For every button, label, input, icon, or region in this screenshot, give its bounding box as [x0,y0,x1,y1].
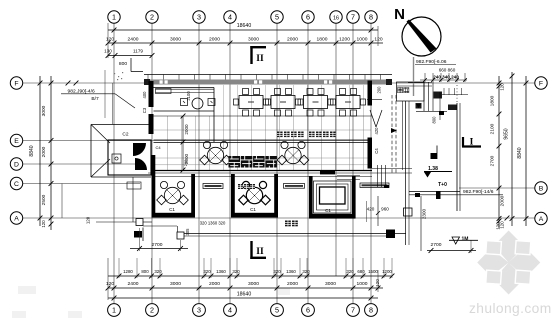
svg-text:A: A [539,216,544,223]
svg-text:960: 960 [381,207,389,212]
svg-text:1000: 1000 [357,37,368,43]
svg-text:2700: 2700 [490,155,496,166]
svg-text:420: 420 [367,207,375,212]
svg-text:320: 320 [232,269,240,274]
top dimension rows 18640 / 120 2400 3000 ... [104,23,383,72]
svg-text:320 1360 320: 320 1360 320 [200,221,226,226]
svg-text:1000: 1000 [357,281,368,287]
svg-text:6: 6 [306,306,310,315]
svg-text:8840: 8840 [517,147,523,158]
svg-text:1M: 1M [462,237,469,243]
svg-text:F: F [539,81,543,88]
svg-text:zhulong.com: zhulong.com [469,301,552,316]
svg-text:1800: 1800 [490,95,496,106]
bottom-left terrace columns and 2700 dim [86,216,191,251]
svg-text:320: 320 [203,269,211,274]
svg-text:2000: 2000 [287,37,298,43]
svg-text:420: 420 [374,127,379,135]
svg-text:800: 800 [432,116,437,124]
svg-text:F: F [14,81,18,88]
svg-text:B: B [539,186,544,193]
svg-text:4: 4 [228,13,232,22]
right wing step dimensions [415,59,467,82]
svg-text:C3: C3 [142,107,147,113]
svg-text:120: 120 [106,281,114,287]
svg-text:D: D [14,162,19,169]
svg-text:1200: 1200 [382,269,392,274]
svg-text:16: 16 [333,16,339,22]
svg-text:C2: C2 [122,132,128,138]
svg-text:E: E [14,138,19,145]
vertical axis grid lines 1-8 [114,23,371,303]
svg-text:6: 6 [306,13,310,22]
A axis ticks right [496,216,510,230]
svg-text:800: 800 [141,269,149,274]
bench 2 [284,184,305,189]
svg-text:800: 800 [119,61,127,67]
svg-text:9650: 9650 [504,128,510,139]
svg-text:1: 1 [112,306,116,315]
svg-text:8: 8 [369,306,373,315]
svg-text:120: 120 [86,216,91,224]
right boundary wall and 982.F90-14/6 [409,103,503,251]
svg-text:320: 320 [302,269,310,274]
svg-text:C1: C1 [325,208,331,213]
svg-text:C: C [14,181,19,188]
svg-text:1: 1 [112,13,116,22]
svg-text:200: 200 [183,159,188,166]
bay 1 with round table C1 [152,155,196,218]
svg-text:320: 320 [273,269,281,274]
svg-text:2000: 2000 [500,195,506,206]
svg-text:2300: 2300 [422,208,427,219]
svg-text:130: 130 [104,49,112,54]
watermark zhulong.com logo [12,231,552,319]
svg-text:3000: 3000 [248,37,259,43]
bottom dimension rows [106,258,395,300]
section marker I [462,137,481,148]
svg-text:5: 5 [275,13,279,22]
svg-text:2000: 2000 [287,281,298,287]
svg-text:2700: 2700 [152,242,163,248]
420 960 dims [367,196,390,226]
svg-text:3: 3 [197,13,201,22]
svg-text:2500: 2500 [41,194,47,205]
svg-text:C4: C4 [374,148,379,154]
right wing flower bed and steps [392,57,468,245]
terrace bottom edge and 水池 label [184,221,406,239]
hall floor tile grid [154,85,371,171]
right axis bubbles F B A and vertical dims [490,72,548,229]
horizontal axis lines F E D C B A [23,83,535,218]
svg-text:7: 7 [351,13,355,22]
bench 1 [203,184,223,189]
svg-text:5: 5 [275,306,279,315]
svg-text:660 860: 660 860 [439,68,456,73]
svg-text:1360: 1360 [286,269,296,274]
svg-text:I: I [470,138,474,148]
svg-text:1500: 1500 [368,269,378,274]
svg-text:C1: C1 [169,207,175,212]
svg-text:2000: 2000 [209,281,220,287]
svg-text:2700: 2700 [431,242,442,248]
axis bubbles bottom 1-8 [108,304,378,317]
svg-text:N: N [394,6,405,23]
north arrow [394,6,441,56]
svg-text:120: 120 [375,279,380,287]
svg-text:18640: 18640 [237,23,252,29]
svg-text:200: 200 [376,86,381,94]
svg-text:2100: 2100 [186,91,191,101]
svg-text:3000: 3000 [170,37,181,43]
right 2700 dimension and 1M flag [427,237,478,254]
four dining tables with chairs [234,89,366,117]
top exterior wall with windows [144,75,392,86]
svg-text:1360: 1360 [216,269,226,274]
svg-text:2100: 2100 [490,123,496,134]
svg-text:305: 305 [185,228,190,236]
svg-text:4: 4 [228,306,232,315]
svg-text:120: 120 [374,37,382,43]
svg-text:240 340 240: 240 340 240 [433,75,459,80]
svg-text:II: II [256,247,264,257]
svg-text:3000: 3000 [325,281,336,287]
elevation flags [424,146,452,189]
svg-text:320: 320 [154,269,162,274]
svg-text:II: II [256,54,264,64]
svg-text:2400: 2400 [128,37,139,43]
left axis bubbles F E D C A and vertical dims [10,76,53,230]
svg-text:1200: 1200 [339,37,350,43]
svg-text:2: 2 [150,13,154,22]
bay 2 with round table C1 [231,174,278,218]
svg-text:2400: 2400 [128,281,139,287]
svg-text:8: 8 [369,13,373,22]
svg-text:3000: 3000 [170,281,181,287]
section marker II top [250,46,266,64]
svg-text:A: A [14,216,19,223]
axis bubbles top 1-8 [108,11,377,23]
svg-text:1179: 1179 [133,49,143,54]
svg-text:18640: 18640 [237,292,252,298]
section marker II bottom [250,241,266,259]
svg-text:C4: C4 [155,145,161,150]
svg-text:3: 3 [197,306,201,315]
svg-text:7: 7 [351,306,355,315]
hall bottom edge [148,169,412,174]
hall round tables [200,141,309,164]
svg-text:120: 120 [41,220,46,228]
left exterior wall with window C3 [142,81,154,134]
svg-text:680: 680 [357,269,365,274]
bay 3 nested pool C1 [309,176,356,219]
svg-text:2000: 2000 [209,37,220,43]
svg-text:120: 120 [106,37,114,43]
svg-text:120: 120 [500,83,505,91]
right hall wall with double door [367,81,397,169]
glass partition and labels 玻璃隔断 厨房食堂 [154,116,373,143]
svg-text:120: 120 [496,222,501,230]
svg-text:3000: 3000 [248,281,259,287]
svg-text:400: 400 [142,91,147,99]
svg-text:2000: 2000 [41,146,47,157]
svg-text:982.F90[-14/6: 982.F90[-14/6 [463,189,494,195]
svg-text:C1: C1 [250,207,256,212]
hall label 餐楼大厅 [229,156,277,168]
svg-text:8840: 8840 [29,145,35,156]
hall interior dims 2000 [181,114,189,173]
leader text 982.J90-4/6 B/7 [61,81,135,108]
svg-text:2: 2 [150,306,154,315]
svg-text:B/7: B/7 [91,96,99,102]
kitchen room with fixtures [154,88,216,151]
bench 3 and steps [320,165,389,188]
svg-text:2000: 2000 [184,124,189,135]
inner edge line below hall [154,159,373,177]
svg-text:T+0: T+0 [438,182,447,188]
svg-text:1800: 1800 [317,37,328,43]
svg-text:982.F90[-6.06: 982.F90[-6.06 [416,59,447,65]
svg-text:1280: 1280 [123,269,133,274]
svg-text:3000: 3000 [41,105,47,116]
entry porch with toilet room C2 [91,70,151,222]
